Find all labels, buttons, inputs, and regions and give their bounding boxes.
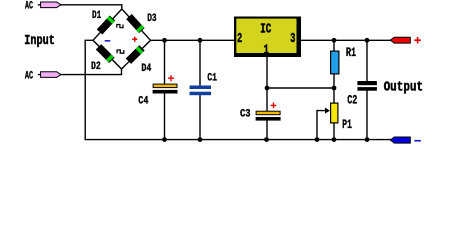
svg-text:D2: D2 <box>91 61 101 73</box>
svg-text:C4: C4 <box>138 96 148 108</box>
svg-text:C3: C3 <box>240 109 251 121</box>
svg-text:1: 1 <box>264 43 269 59</box>
svg-text:Input: Input <box>24 34 55 49</box>
svg-text:D4: D4 <box>141 63 151 75</box>
svg-text:AC: AC <box>25 70 33 82</box>
svg-text:Output: Output <box>384 80 424 95</box>
svg-text:C1: C1 <box>207 72 217 84</box>
svg-text:D1: D1 <box>92 10 101 22</box>
svg-text:IC: IC <box>260 22 271 38</box>
svg-text:R1: R1 <box>346 45 356 60</box>
svg-text:C2: C2 <box>347 92 357 107</box>
svg-text:D3: D3 <box>147 13 157 25</box>
svg-text:P1: P1 <box>342 117 352 132</box>
svg-text:3: 3 <box>290 31 295 47</box>
svg-text:AC: AC <box>25 0 33 12</box>
svg-text:2: 2 <box>237 31 242 47</box>
